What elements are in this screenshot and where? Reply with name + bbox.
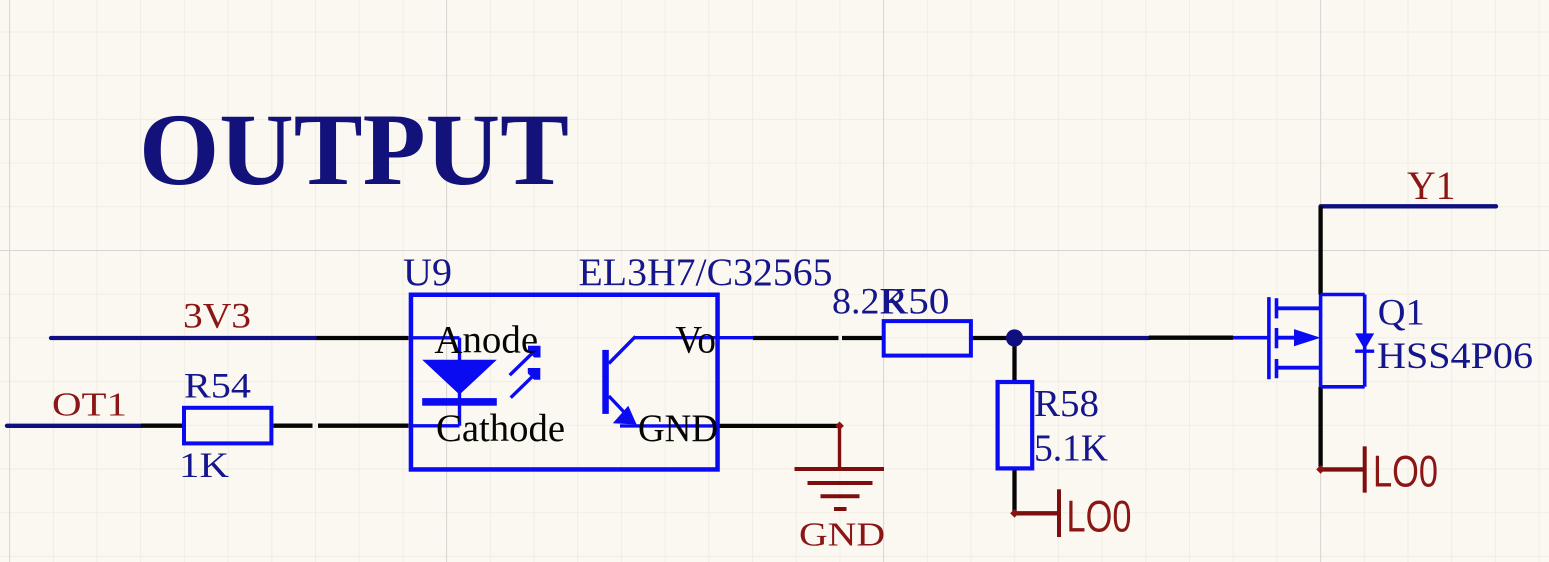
ground bar 2: [808, 481, 873, 485]
resistor R50: [884, 321, 971, 356]
ground bar 3: [821, 494, 860, 498]
transistor Q1 bottom link: [1321, 385, 1365, 389]
transistor Q1 source stub: [1277, 366, 1321, 370]
resistor R58: [998, 382, 1033, 468]
power port LO0 Q1 bar: [1363, 446, 1367, 492]
svg-text:Q1: Q1: [1378, 293, 1425, 334]
wire U9 Vo lead: [634, 336, 753, 339]
diode Q1 body bar: [1355, 350, 1374, 353]
ground bar 4: [834, 507, 847, 511]
svg-text:Vo: Vo: [675, 317, 716, 361]
diode Q1 body branch: [1363, 295, 1367, 387]
svg-text:R50: R50: [881, 281, 950, 322]
wire U9 Vo pin: [753, 336, 839, 340]
pin-end cross GND: [835, 422, 844, 431]
op-amp U9 optocoupler body: [411, 295, 718, 470]
wire Q1 drain to Y1: [1318, 206, 1322, 294]
wire U9 cathode pin: [318, 424, 409, 428]
svg-text:Anode: Anode: [434, 317, 538, 361]
diode U9 LED cathode bar: [422, 398, 497, 406]
wire R50 left pin: [842, 336, 883, 340]
transistor U9 base bar: [602, 350, 609, 414]
wire Q1 gate pin: [1149, 336, 1233, 340]
svg-text:U9: U9: [403, 250, 452, 294]
svg-text:GND: GND: [638, 406, 718, 450]
transistor Q1 bulk stub: [1277, 336, 1297, 340]
wire Q1 source to LO0: [1318, 387, 1322, 467]
wire Q1 gate lead: [1233, 336, 1269, 340]
wire R58 top pin: [1012, 338, 1016, 380]
ground GND stem: [838, 426, 841, 469]
transistor Q1 inner vertical: [1319, 295, 1323, 387]
LED emission arrow 1: [510, 352, 534, 376]
svg-text:5.1K: 5.1K: [1034, 428, 1108, 470]
wire U9 GND lead: [620, 424, 720, 427]
svg-text:GND: GND: [799, 517, 885, 554]
svg-text:Y1: Y1: [1407, 163, 1456, 208]
transistor Q1 drain stub: [1277, 306, 1321, 310]
power port LO0 Q1 line: [1321, 467, 1365, 471]
diode U9 LED triangle: [422, 360, 497, 395]
transistor Q1 gate bar: [1267, 297, 1271, 379]
svg-text:R54: R54: [184, 366, 251, 406]
svg-text:OT1: OT1: [52, 386, 127, 423]
transistor Q1 channel dash 3: [1275, 359, 1279, 378]
wire U9 anode pin: [317, 336, 409, 340]
transistor U9 emitter: [609, 396, 632, 421]
svg-text:1K: 1K: [179, 445, 229, 485]
pin-end cross LO0 Q1: [1316, 465, 1325, 474]
svg-text:3V3: 3V3: [183, 296, 251, 336]
transistor Q1 top link: [1321, 293, 1365, 297]
svg-text:EL3H7/C32565: EL3H7/C32565: [579, 250, 833, 294]
svg-text:LO0: LO0: [1067, 493, 1132, 542]
transistor Q1 channel dash 2: [1275, 328, 1279, 348]
svg-text:LO0: LO0: [1373, 448, 1438, 497]
wire U9 anode lead: [412, 336, 460, 339]
diode Q1 body triangle: [1355, 333, 1374, 349]
svg-text:OUTPUT: OUTPUT: [139, 93, 569, 207]
wire R58 bottom pin: [1012, 470, 1016, 511]
node junction R50/R58/Q1: [1006, 329, 1023, 346]
wire Y1 net: [1321, 204, 1496, 208]
wire R50 right pin: [972, 336, 1015, 340]
ground bar 1: [795, 467, 885, 471]
wire U9 cathode lead: [412, 424, 460, 427]
transistor U9 collector: [609, 337, 636, 364]
wire OT1 net: [7, 424, 141, 428]
power port LO0 line: [1015, 511, 1060, 515]
wire R54 left pin: [141, 424, 182, 428]
svg-text:HSS4P06: HSS4P06: [1377, 335, 1533, 376]
wire U9 LED vertical: [458, 338, 461, 426]
wire 3V3 net: [51, 336, 316, 340]
pin-end cross LO0: [1010, 509, 1019, 518]
wire junction to Q1 gate: [1015, 336, 1149, 340]
power port LO0 bar: [1057, 489, 1061, 537]
transistor Q1 channel dash 1: [1275, 298, 1279, 318]
wire R54 right pin: [274, 424, 313, 428]
wire U9 GND pin: [718, 424, 840, 428]
resistor R54: [184, 408, 271, 444]
svg-text:Cathode: Cathode: [436, 406, 565, 450]
transistor Q1 bulk arrow: [1294, 329, 1321, 346]
LED emission arrow 2: [511, 374, 535, 398]
svg-text:R58: R58: [1034, 383, 1099, 425]
